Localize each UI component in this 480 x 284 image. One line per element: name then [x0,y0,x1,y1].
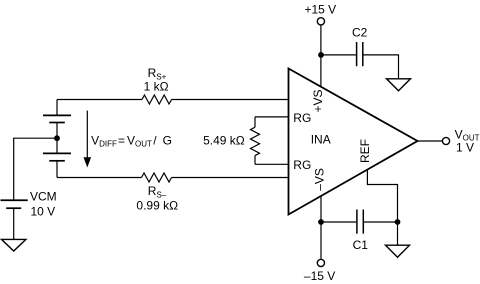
svg-text:C2: C2 [352,26,368,40]
source VCM plates [1,200,28,208]
svg-text:1 V: 1 V [456,141,474,155]
wire between cells [56,123,58,154]
wire from center tap to VCM [14,138,57,200]
wire -IN bottom left segment [57,177,142,179]
arrow VDIFF [84,111,92,168]
wire VCM to ground [13,208,15,239]
svg-text:REF: REF [358,139,372,163]
junction dot between cells [54,135,60,141]
wire battery bottom lead [56,161,58,178]
svg-text:+15 V: +15 V [304,3,336,17]
wire junction to ground [397,222,399,245]
svg-text:5.49 kΩ: 5.49 kΩ [203,134,245,148]
ground (VCM) [2,239,26,251]
svg-text:+VS: +VS [311,89,325,112]
svg-text:–15 V: –15 V [304,269,335,283]
wire to C1 [321,221,356,223]
junction dot +VS [318,52,324,58]
svg-text:RG: RG [293,111,311,125]
svg-text:RS–: RS– [148,184,167,199]
wire -IN to amp [172,177,289,179]
wire +IN to amp [172,99,289,101]
terminal -15V circle [317,259,324,266]
svg-text:1 kΩ: 1 kΩ [144,80,169,94]
junction dot -VS [318,219,324,225]
svg-text:C1: C1 [353,238,369,252]
wire -VS vertical [320,196,322,259]
svg-text:10 V: 10 V [31,204,56,218]
svg-text:VDIFF=VOUT/G: VDIFF=VOUT/G [91,133,172,148]
wire C1 to junction [364,221,398,223]
source V2 bottom cell plates [43,153,71,160]
wire battery top lead [56,100,58,116]
wire REF routing [367,170,397,222]
wire C2 to ground [364,55,399,79]
op-amp U1 INA triangle [289,69,418,215]
svg-text:–VS: –VS [313,168,327,191]
wire +IN top left segment [57,99,142,101]
resistor RG 5.49k zigzag [251,127,260,155]
svg-text:VCM: VCM [30,190,57,204]
wire RG top lead [254,117,256,127]
source V1 top cell plates [43,115,71,122]
wire RG top stub [255,116,289,118]
terminal VOUT circle [442,137,449,144]
ground (REF/C1) [386,245,410,257]
resistor RS+ zigzag [142,95,172,104]
wire to C2 [321,54,356,56]
ground (C2) [387,79,411,91]
capacitor C2 plates [357,42,363,66]
wire RG bottom lead [254,156,256,165]
wire RG bottom stub [255,163,289,165]
resistor RS- zigzag [142,173,172,182]
junction dot REF/C1/ground [395,219,401,225]
svg-text:INA: INA [311,133,331,147]
terminal +15V circle [317,18,324,25]
wire +VS vertical [320,25,322,86]
capacitor C1 plates [357,210,363,234]
svg-text:RG: RG [293,158,311,172]
wire output [418,140,443,142]
svg-text:0.99 kΩ: 0.99 kΩ [136,199,178,213]
